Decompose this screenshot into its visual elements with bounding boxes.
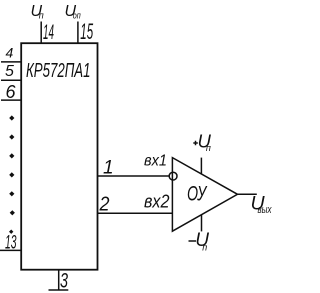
minus sign of -Uп (189, 240, 197, 242)
svg-text:вх2: вх2 (144, 192, 170, 212)
ellipsis dot 4 (9, 172, 14, 177)
svg-text:ОУ: ОУ (187, 183, 208, 206)
wire pin 1 to op-amp inverting input (98, 175, 170, 177)
IC D1 КР572ПА1 body (21, 43, 97, 270)
svg-text:15: 15 (80, 19, 93, 44)
svg-text:п: п (39, 10, 44, 20)
ellipsis dot 7 (9, 230, 13, 234)
svg-text:5: 5 (5, 63, 14, 80)
ellipsis dot 6 (10, 210, 15, 215)
svg-text:6: 6 (6, 82, 17, 102)
svg-text:п: п (202, 243, 207, 253)
svg-text:КР572ПА1: КР572ПА1 (26, 60, 91, 82)
svg-text:2: 2 (99, 193, 110, 215)
wire pin 4 lead (1, 61, 21, 63)
wire pin 3 lead (58, 270, 60, 290)
wire op-amp output (238, 193, 257, 195)
ellipsis dot 2 (9, 134, 14, 139)
svg-text:вых: вых (258, 204, 272, 216)
svg-text:п: п (206, 143, 211, 153)
ellipsis dot 3 (9, 153, 14, 158)
wire pin 5 lead (1, 79, 21, 81)
svg-text:3: 3 (60, 270, 68, 293)
wire Uп to pin 14 (40, 22, 42, 44)
op-amp inverting input bubble (169, 172, 177, 180)
ellipsis dot 5 (9, 191, 14, 196)
wire +Uп supply (200, 158, 202, 175)
svg-text:вх1: вх1 (144, 153, 167, 170)
ellipsis dot 1 (9, 115, 14, 120)
wire pin 6 lead (1, 99, 21, 101)
op-amp U1 triangle (172, 158, 237, 232)
ground bar pin 3 (49, 289, 69, 291)
wire pin 13 lead (0, 249, 21, 251)
svg-text:14: 14 (43, 21, 54, 44)
wire Uоп to pin 15 (77, 22, 79, 44)
svg-text:4: 4 (6, 44, 14, 60)
plus sign of +Uп (193, 141, 198, 146)
wire pin 2 to op-amp input (98, 212, 173, 214)
wire -Uп supply (201, 215, 203, 232)
